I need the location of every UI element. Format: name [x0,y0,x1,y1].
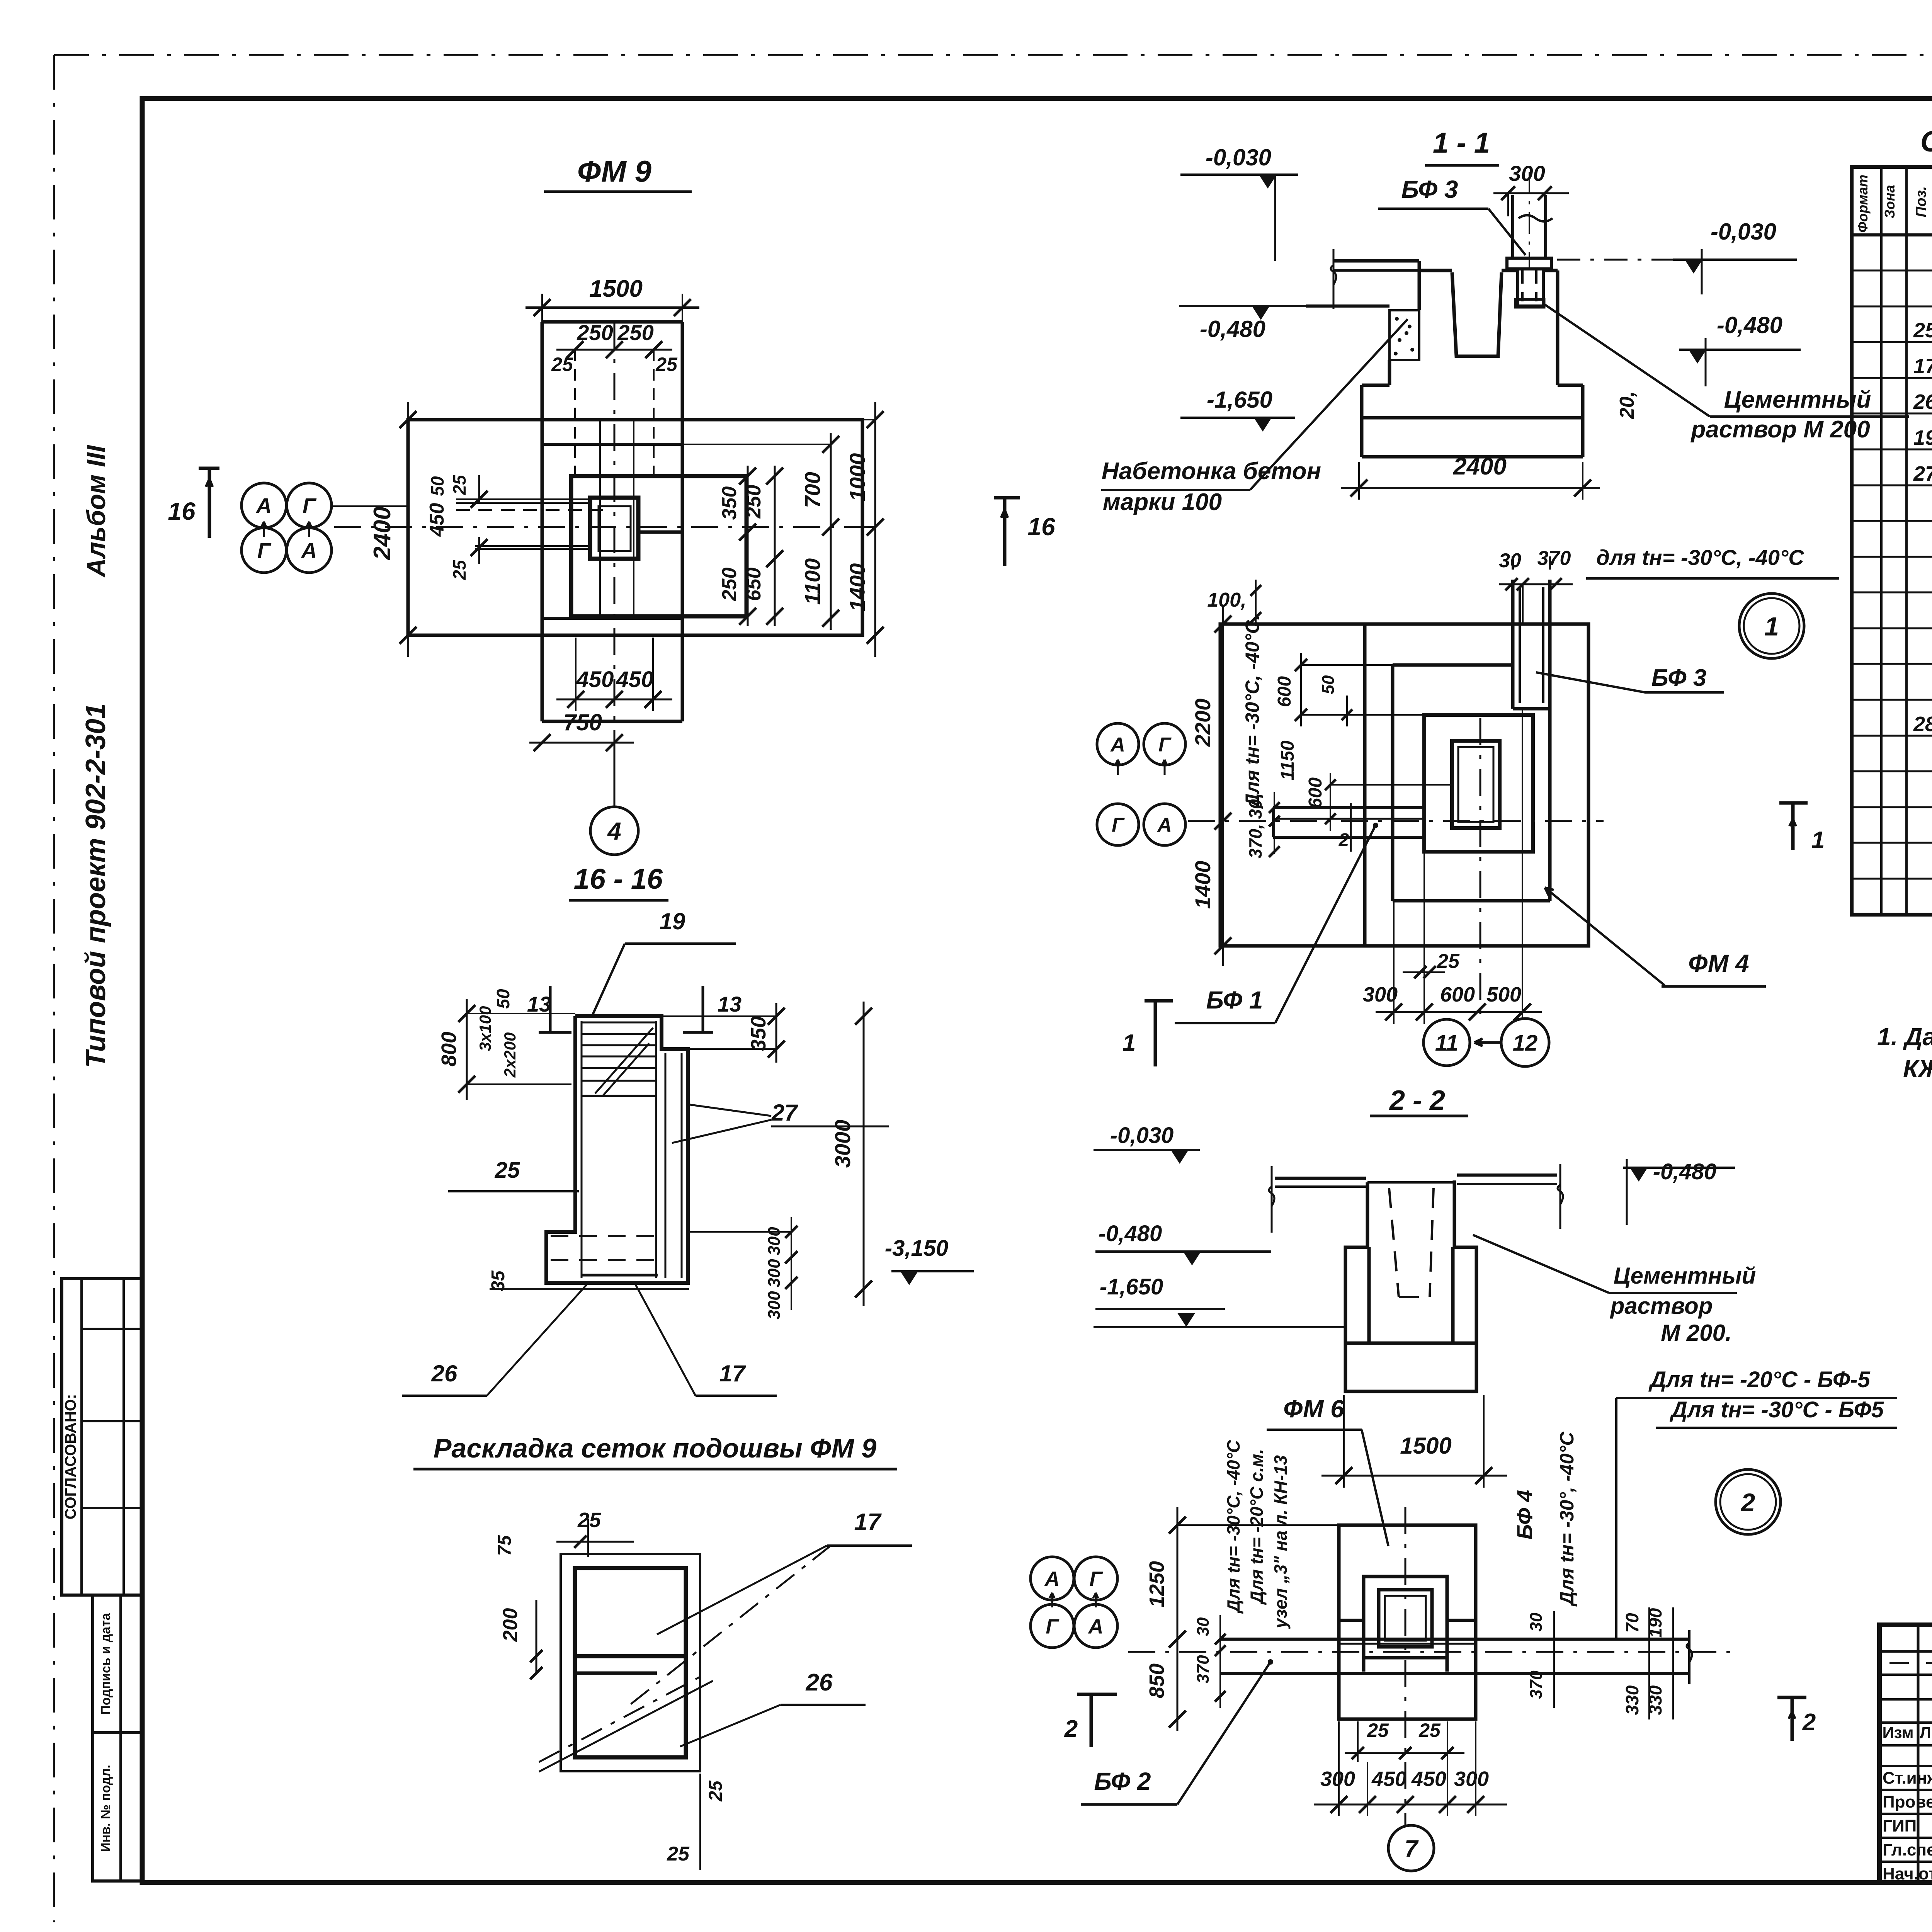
section 1-1: BF3 precast column above [1511,195,1514,258]
svg-text:Г: Г [1158,734,1172,756]
svg-text:300: 300 [765,1227,784,1255]
svg-text:370, 30: 370, 30 [1245,799,1265,859]
section 2-2: pocket dashed [1389,1188,1399,1297]
svg-text:650: 650 [743,568,765,601]
svg-text:БФ 1: БФ 1 [1206,986,1263,1014]
svg-text:БФ 3: БФ 3 [1651,665,1706,691]
svg-text:370: 370 [1527,1670,1546,1699]
svg-text:1: 1 [1811,827,1825,854]
svg-text:25: 25 [667,1843,690,1865]
svg-text:Г: Г [303,493,317,518]
svg-text:Зона: Зона [1882,185,1898,219]
section 1-1: foundation body outline [1388,360,1391,385]
svg-text:2200: 2200 [1190,699,1215,747]
svg-text:А: А [1088,1615,1104,1638]
FM9 plan: connector stub [638,531,682,534]
dim 300 top [1493,192,1569,194]
svg-text:600: 600 [1305,777,1326,808]
fm6: axis circles [1031,1557,1074,1600]
svg-text:700: 700 [800,472,825,508]
svg-text:370: 370 [1537,547,1571,570]
svg-text:17: 17 [719,1361,746,1386]
fm6: node circle 7 [1388,1825,1434,1871]
svg-text:Цементный: Цементный [1614,1263,1756,1289]
svg-text:300: 300 [1363,983,1398,1006]
svg-text:13: 13 [718,992,742,1016]
svg-text:-0,030: -0,030 [1110,1123,1173,1148]
svg-text:2: 2 [1338,830,1349,850]
uzel4: section mark 1 right [1791,803,1795,850]
svg-text:330: 330 [1622,1685,1642,1715]
svg-text:-0,030: -0,030 [1206,145,1271,170]
svg-text:2 - 2: 2 - 2 [1389,1085,1445,1116]
svg-text:А: А [255,493,272,518]
node circle 1 top right [1739,594,1804,658]
svg-text:Инв. № подл.: Инв. № подл. [99,1765,113,1852]
svg-text:Для tн= -30°С, -40°С: Для tн= -30°С, -40°С [1223,1440,1243,1614]
svg-text:250: 250 [718,568,741,602]
svg-text:Изм: Изм [1882,1723,1913,1742]
dim 350 right [776,1003,777,1063]
svg-text:-0,480: -0,480 [1099,1221,1162,1246]
spec table underline for header sep [1852,233,1932,236]
uzel4: axis lines [1188,820,1604,822]
section 1-1: BF3 socket [1516,270,1519,306]
fm6: inner U walls [1364,1577,1447,1672]
svg-text:26: 26 [806,1669,833,1696]
svg-text:ГИП: ГИП [1883,1816,1917,1835]
svg-text:Для tн= -30°С - БФ5: Для tн= -30°С - БФ5 [1669,1397,1884,1422]
svg-text:600: 600 [1440,983,1475,1006]
svg-text:Для tн= -20°С - БФ-5: Для tн= -20°С - БФ-5 [1648,1367,1870,1392]
svg-text:25: 25 [706,1780,726,1802]
svg-text:Типовой проект 902-2-301: Типовой проект 902-2-301 [80,703,111,1068]
svg-text:20,: 20, [1616,391,1638,419]
svg-text:2х200: 2х200 [501,1032,519,1078]
uzel4: pier rect C [1424,715,1533,852]
svg-text:А: А [1110,734,1125,756]
svg-text:-3,150: -3,150 [885,1236,948,1261]
title block outer [1879,1625,1932,1883]
svg-text:1150: 1150 [1277,740,1298,781]
svg-text:-0,480: -0,480 [1717,312,1782,338]
view 16-16: main column outline with right step and left foot [546,1016,688,1283]
FM9 plan: axis circles А Г / Г А [241,483,286,528]
title block revision dashes [1889,1662,1909,1664]
svg-text:-0,480: -0,480 [1653,1159,1716,1184]
svg-text:Для tн= -30°, -40°С: Для tн= -30°, -40°С [1556,1432,1578,1607]
view 16-16: top hook bars 13 [549,986,552,1032]
svg-text:600: 600 [1274,676,1295,707]
svg-text:450: 450 [1411,1767,1446,1791]
svg-text:450: 450 [1371,1767,1406,1791]
svg-text:Подпись и дата: Подпись и дата [99,1612,113,1715]
svg-text:1: 1 [1122,1030,1136,1056]
dim 2400 bottom [1341,487,1600,489]
svg-text:ФМ 9: ФМ 9 [577,154,651,188]
svg-text:27: 27 [1913,462,1932,485]
section 1-1: left floor slab [1333,259,1419,263]
svg-text:2: 2 [1802,1709,1816,1736]
FM9 plan: section mark 16 right [1003,498,1007,566]
svg-text:1000: 1000 [845,453,869,502]
svg-text:25: 25 [577,1509,601,1532]
svg-text:30: 30 [1194,1617,1213,1636]
uzel4: section mark 1 bottom left [1154,1001,1157,1066]
svg-text:Нач.отд.: Нач.отд. [1883,1864,1932,1883]
svg-text:25: 25 [1367,1719,1389,1741]
svg-text:ФМ 4: ФМ 4 [1688,949,1749,977]
svg-text:А: А [301,538,317,563]
fm6: left dims 1250 850 [1177,1507,1179,1731]
svg-text:-0,480: -0,480 [1200,316,1265,342]
svg-text:1 - 1: 1 - 1 [1433,127,1490,159]
uzel4: outer rect [1220,624,1588,946]
svg-text:30: 30 [1499,549,1521,572]
svg-text:850: 850 [1145,1663,1168,1698]
svg-text:2400: 2400 [1453,453,1507,480]
uzel4: left dims 2200 1400 [1222,607,1224,966]
uzel4: beam BF1 from left [1273,806,1424,809]
uzel4: column double rect [1452,741,1500,828]
fm6: axis lines [1128,1651,1735,1653]
svg-text:13: 13 [527,992,551,1016]
svg-text:1: 1 [1764,612,1779,641]
svg-text:17: 17 [1913,355,1932,378]
svg-text:Набетонка бетон: Набетонка бетон [1102,458,1321,485]
svg-text:-1,650: -1,650 [1207,387,1272,413]
svg-text:Г: Г [257,538,272,563]
FM9 plan: outer plate rectangle [408,420,862,635]
view 16-16: inner cage lines [581,1021,583,1278]
svg-text:800: 800 [437,1032,461,1066]
svg-text:1500: 1500 [1400,1433,1451,1459]
svg-text:190: 190 [1645,1608,1665,1638]
fm6: section mark 2 left [1090,1694,1093,1747]
dim 700 1100 right [830,433,832,630]
svg-text:СОГЛАСОВАНО:: СОГЛАСОВАНО: [62,1394,79,1520]
svg-text:350: 350 [718,486,741,520]
mesh plan: middle divider [575,1654,686,1658]
svg-text:-1,650: -1,650 [1100,1274,1163,1299]
svg-text:1400: 1400 [1190,861,1215,909]
FM9 plan: step bracket rectangle [571,476,747,616]
left stamp: Подпись и дата cell [93,1595,142,1733]
svg-text:450: 450 [576,667,614,692]
svg-text:Гл.спец.: Гл.спец. [1883,1840,1932,1859]
svg-text:4: 4 [607,817,621,845]
svg-text:раствор М 200: раствор М 200 [1690,416,1870,443]
fm6: beam BF2 [1221,1638,1689,1641]
FM9 plan: thin anchor lines from left [456,498,590,500]
svg-text:КЖ- 7, КЖ- 10.: КЖ- 7, КЖ- 10. [1903,1055,1932,1083]
svg-text:1400: 1400 [845,563,869,612]
node circle 2 [1716,1469,1781,1534]
svg-text:Раскладка сеток подошвы ФМ 9: Раскладка сеток подошвы ФМ 9 [434,1433,877,1463]
svg-text:50: 50 [493,989,513,1009]
svg-text:2: 2 [1740,1488,1755,1517]
svg-text:1. Данный лист см. совм: 1. Данный лист см. совместно с листом [1877,1023,1932,1051]
dim 2400 left [407,402,409,657]
dim 1500 bottom 2-2 [1321,1475,1507,1477]
svg-text:Г: Г [1046,1615,1060,1638]
svg-text:350: 350 [747,1016,770,1051]
svg-text:16: 16 [1027,513,1055,541]
svg-text:Формат: Формат [1855,175,1871,233]
mesh plan: inner thick rect [575,1568,686,1757]
dim 1000 1400 right [874,402,876,657]
svg-text:450: 450 [426,503,448,537]
svg-text:50: 50 [427,476,447,496]
svg-text:1250: 1250 [1145,1561,1168,1607]
FM9 plan: axis dash-dot lines [334,526,867,528]
dim 3000 right [863,1002,865,1306]
uzel4: break mark 2 [1350,803,1352,852]
svg-text:1500: 1500 [589,276,643,302]
svg-text:250: 250 [617,320,653,345]
svg-text:Цементный: Цементный [1724,386,1871,413]
svg-text:25: 25 [551,354,573,375]
svg-text:марки 100: марки 100 [1103,489,1222,515]
FM9 plan: inner plate step lines [542,443,682,446]
svg-text:Поз.: Поз. [1913,186,1929,218]
uzel4: rect B [1393,663,1513,667]
section 2-2: pier with pocket [1366,1182,1369,1247]
sheet frame: outer dash-dot borders [54,54,1932,56]
svg-text:25: 25 [449,474,469,495]
svg-text:Г: Г [1089,1567,1103,1590]
uzel4: inner left vertical [1363,624,1367,946]
svg-text:19: 19 [660,908,685,934]
svg-text:70: 70 [1622,1613,1642,1633]
svg-text:28: 28 [1913,713,1932,736]
svg-text:11: 11 [1435,1031,1458,1056]
mesh plan: outer rect [561,1554,700,1771]
svg-text:750: 750 [563,709,602,735]
svg-text:для tн= -30°С, -40°С: для tн= -30°С, -40°С [1596,545,1804,570]
section 1-1: nabetonka pad speckled [1389,310,1419,360]
svg-text:25: 25 [1913,319,1932,342]
svg-text:2: 2 [1064,1716,1078,1742]
dim 250 250 top [556,349,672,351]
svg-text:26: 26 [1913,390,1932,413]
section 2-2: middle walls [1345,1247,1367,1343]
uzel4: axis circles [1097,723,1139,765]
fm6: section mark 2 right [1791,1697,1794,1741]
svg-text:25: 25 [495,1158,520,1183]
svg-text:25: 25 [449,560,469,580]
left stamp: Согласовано table [62,1279,142,1595]
svg-text:250: 250 [743,485,765,519]
uzel4: BF3 channel top right [1511,580,1515,709]
svg-text:А: А [1156,814,1172,837]
svg-text:3х100: 3х100 [476,1006,494,1051]
svg-text:1100: 1100 [800,558,825,605]
svg-text:17: 17 [854,1509,882,1536]
FM9 plan: vertical band [541,322,544,721]
section 2-2: bottom block [1345,1343,1476,1391]
svg-text:16: 16 [168,497,196,525]
title block verticals left part [1917,1625,1920,1883]
svg-text:Для tн= -20°С с.м.: Для tн= -20°С с.м. [1247,1449,1267,1605]
svg-text:300: 300 [1454,1767,1489,1791]
svg-text:25: 25 [1418,1719,1441,1741]
fm6: column double square [1379,1590,1432,1647]
svg-text:27: 27 [771,1100,798,1126]
svg-text:330: 330 [1645,1685,1665,1715]
svg-text:2400: 2400 [369,507,396,560]
svg-text:25: 25 [1437,950,1460,973]
svg-text:Спецификация для монолитных: Спецификация для монолитных элементов [1920,125,1932,158]
svg-text:300: 300 [765,1259,784,1287]
svg-text:300: 300 [765,1291,784,1320]
FM9 plan: column double square [590,498,638,559]
svg-text:БФ 4: БФ 4 [1512,1490,1537,1540]
svg-text:А: А [1044,1567,1060,1590]
svg-text:узел „3" на л. КН-13: узел „3" на л. КН-13 [1270,1455,1291,1629]
svg-text:200: 200 [499,1608,522,1642]
svg-text:3000: 3000 [830,1120,855,1168]
svg-text:500: 500 [1486,983,1521,1006]
section 2-2: right slab [1457,1173,1557,1177]
dim 450 450 below [556,699,672,701]
svg-text:Г: Г [1112,814,1125,837]
svg-text:30: 30 [1527,1612,1546,1631]
section 1-1: column pocket trapezoid [1452,272,1502,356]
left stamp: Инв. № подл cell [93,1733,142,1881]
svg-text:М 200.: М 200. [1661,1320,1731,1346]
svg-text:50: 50 [1319,675,1338,694]
svg-text:Лист: Лист [1920,1723,1932,1742]
svg-text:450: 450 [616,667,654,692]
svg-text:-0,030: -0,030 [1711,219,1776,245]
svg-text:300: 300 [1320,1767,1355,1791]
svg-text:16 - 16: 16 - 16 [574,863,663,895]
svg-text:300: 300 [1509,161,1545,185]
svg-text:250: 250 [577,320,613,345]
svg-text:Для tн= -30°С, -40°С.: Для tн= -30°С, -40°С. [1242,615,1263,809]
dim 1500 top [526,306,699,309]
svg-text:ФМ 6: ФМ 6 [1283,1395,1344,1423]
section 2-2: left slab [1275,1177,1366,1180]
svg-text:БФ 3: БФ 3 [1401,175,1458,203]
svg-text:Альбом III: Альбом III [82,444,111,578]
svg-text:Провер: Провер [1883,1793,1932,1811]
node circle 4 [614,755,616,807]
svg-text:БФ 2: БФ 2 [1094,1767,1151,1795]
svg-text:26: 26 [431,1361,457,1386]
fm6: outer rect [1339,1525,1476,1719]
svg-text:Ст.инжен: Ст.инжен [1883,1769,1932,1787]
svg-text:75: 75 [495,1535,515,1556]
svg-text:25: 25 [655,354,678,375]
dim 750 below [529,742,634,744]
title block rows left part [1879,1650,1932,1653]
svg-text:12: 12 [1513,1031,1538,1056]
spec table grid [1852,167,1932,915]
mesh plan: diagonal bar 26 [539,1673,707,1762]
FM9 plan: section mark 16 left [208,468,211,538]
dim 800 3x100 2x200 left [466,999,468,1100]
svg-text:100,: 100, [1207,589,1246,611]
svg-text:19: 19 [1913,426,1932,449]
svg-text:раствор: раствор [1610,1293,1713,1319]
ground line below foot [490,1288,689,1290]
svg-text:7: 7 [1405,1835,1419,1862]
uzel4: node circles 11 12 [1423,1019,1470,1066]
uzel4: inner dims 600 50 1150 600 [1300,653,1302,726]
svg-text:370: 370 [1194,1655,1213,1684]
